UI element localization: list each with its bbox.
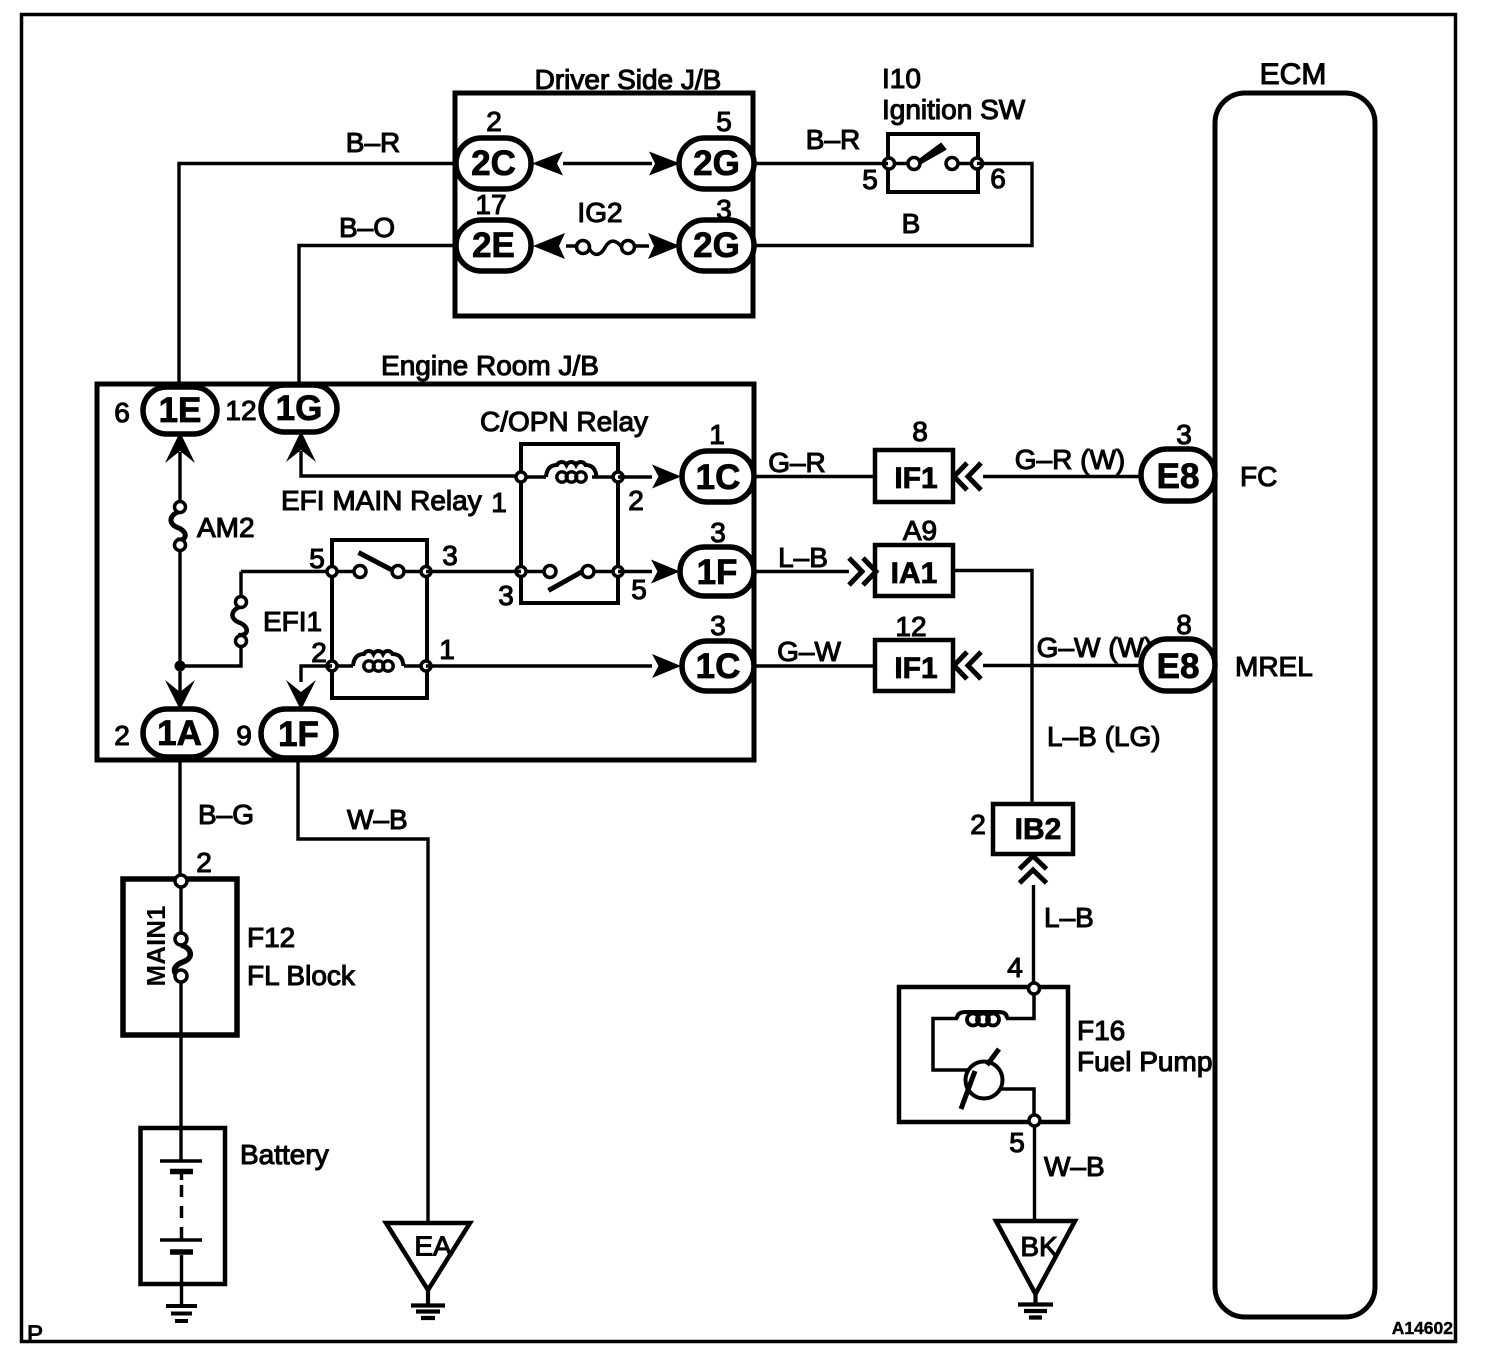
wire B-G from 1A to MAIN1 xyxy=(180,757,254,878)
svg-text:B–G: B–G xyxy=(198,799,254,830)
wire EFI MAIN pin2 to 1F xyxy=(301,666,332,682)
svg-text:BK: BK xyxy=(1020,1231,1058,1262)
harness chevrons into IF1 top xyxy=(954,463,981,490)
wire L-B to fuel pump xyxy=(1007,885,1094,988)
svg-text:8: 8 xyxy=(1176,609,1192,640)
harness arrows row 1 with wire xyxy=(532,152,680,176)
svg-text:Ignition SW: Ignition SW xyxy=(882,94,1026,125)
connector E8 pin 8 (MREL) xyxy=(1141,609,1215,691)
wire W-B to BK ground xyxy=(1009,1126,1104,1221)
connector 1C pin 1 xyxy=(682,419,754,502)
connector IA1 (A9) xyxy=(875,515,953,596)
svg-text:FL Block: FL Block xyxy=(247,960,356,991)
svg-text:W–B: W–B xyxy=(347,804,408,835)
svg-text:17: 17 xyxy=(475,189,506,220)
ground EA xyxy=(386,1223,470,1318)
wire EFI MAIN pin1 to 1C bottom xyxy=(426,664,652,667)
svg-text:5: 5 xyxy=(716,106,732,137)
svg-text:2G: 2G xyxy=(693,226,740,265)
svg-text:IF1: IF1 xyxy=(894,462,937,495)
harness arrow into 1F right xyxy=(651,560,680,584)
wire C/OPN pin2 to 1C xyxy=(618,475,652,478)
svg-text:5: 5 xyxy=(631,574,647,605)
svg-text:E8: E8 xyxy=(1157,647,1200,686)
connector 2G pin 5 xyxy=(679,106,754,189)
connector 1F pin 3 xyxy=(680,517,754,596)
svg-text:IG2: IG2 xyxy=(577,197,622,228)
connector 2G pin 3 xyxy=(679,194,754,271)
harness arrow down into 1F xyxy=(286,680,316,710)
svg-text:EFI1: EFI1 xyxy=(263,606,322,637)
connector 1C pin 3 xyxy=(682,610,754,691)
svg-text:5: 5 xyxy=(309,543,325,574)
svg-text:A14602: A14602 xyxy=(1392,1318,1454,1338)
svg-text:9: 9 xyxy=(236,720,252,751)
svg-text:G–R (W): G–R (W) xyxy=(1015,444,1125,475)
svg-text:AM2: AM2 xyxy=(197,512,255,543)
svg-text:2G: 2G xyxy=(693,144,740,183)
svg-text:3: 3 xyxy=(498,580,514,611)
connector 2C pin 2 xyxy=(456,106,531,189)
connector IF1 pin 12 xyxy=(875,611,953,691)
svg-text:2C: 2C xyxy=(471,144,516,183)
svg-text:W–B: W–B xyxy=(1044,1151,1105,1182)
wire EFI MAIN pin3 to C/OPN pin3 xyxy=(426,570,521,573)
wire B-R from 2G to switch xyxy=(754,124,888,164)
svg-text:2: 2 xyxy=(486,106,502,137)
svg-text:1G: 1G xyxy=(276,389,323,428)
fusible link MAIN1 (F12 FL Block) xyxy=(123,875,356,1161)
wire B from switch to 2G pin 3 xyxy=(754,164,1032,246)
harness arrow down into 1A xyxy=(165,680,195,710)
svg-text:G–W (W): G–W (W) xyxy=(1037,632,1154,663)
relay EFI MAIN xyxy=(281,485,482,698)
connector E8 pin 3 (FC) xyxy=(1141,419,1215,501)
harness arrow into 1C bottom xyxy=(652,654,681,678)
wire 1E down through AM2 to junction and 1A xyxy=(178,452,181,707)
svg-text:EA: EA xyxy=(414,1231,452,1262)
svg-text:5: 5 xyxy=(1009,1127,1025,1158)
svg-text:I10: I10 xyxy=(882,63,921,94)
svg-text:2: 2 xyxy=(114,720,130,751)
svg-text:2: 2 xyxy=(628,485,644,516)
svg-text:L–B: L–B xyxy=(778,542,828,573)
connector 1A pin 2 xyxy=(114,709,216,757)
svg-text:F12: F12 xyxy=(247,922,295,953)
wire C/OPN pin5 to 1F xyxy=(618,570,652,573)
svg-text:3: 3 xyxy=(442,540,458,571)
svg-text:3: 3 xyxy=(716,194,732,225)
svg-text:2: 2 xyxy=(970,809,986,840)
svg-text:MAIN1: MAIN1 xyxy=(141,906,171,987)
svg-text:3: 3 xyxy=(1176,419,1192,450)
svg-text:1C: 1C xyxy=(696,458,741,497)
svg-text:F16: F16 xyxy=(1077,1015,1125,1046)
svg-text:A9: A9 xyxy=(903,515,937,546)
svg-text:ECM: ECM xyxy=(1260,58,1327,91)
svg-text:1: 1 xyxy=(709,419,725,450)
wire B-O from 2E left to 1G xyxy=(299,212,457,385)
svg-text:G–R: G–R xyxy=(768,447,826,478)
svg-text:12: 12 xyxy=(895,611,926,642)
ground below battery xyxy=(166,1306,197,1321)
svg-text:1F: 1F xyxy=(278,715,319,754)
svg-text:B–R: B–R xyxy=(806,124,860,155)
svg-text:L–B: L–B xyxy=(1044,902,1094,933)
fuel pump F16 xyxy=(899,983,1212,1126)
connector 1E pin 6 xyxy=(114,387,217,434)
svg-text:6: 6 xyxy=(114,397,130,428)
svg-text:EFI MAIN Relay: EFI MAIN Relay xyxy=(281,485,482,516)
svg-text:IA1: IA1 xyxy=(891,557,938,590)
svg-text:L–B (LG): L–B (LG) xyxy=(1047,721,1161,752)
svg-text:Driver Side J/B: Driver Side J/B xyxy=(535,64,722,95)
harness chevrons into IF1 bottom xyxy=(954,652,981,679)
svg-text:P: P xyxy=(27,1321,43,1348)
svg-text:4: 4 xyxy=(1007,952,1023,983)
connector IB2 pin 2 xyxy=(970,804,1073,854)
svg-text:2: 2 xyxy=(196,847,212,878)
harness arrow up into 1G xyxy=(286,431,316,462)
fuse AM2 xyxy=(171,502,255,551)
ground BK xyxy=(996,1221,1075,1318)
svg-text:B–O: B–O xyxy=(339,212,395,243)
harness chevrons up into IB2 xyxy=(1020,856,1047,883)
connector 2E pin 17 xyxy=(456,189,531,271)
svg-text:2E: 2E xyxy=(472,226,515,265)
connector 1F pin 9 xyxy=(236,709,336,758)
wire G-W (W) from E8 xyxy=(983,632,1153,666)
battery xyxy=(141,1128,329,1306)
wire 1G down to C/OPN coil row xyxy=(301,451,521,476)
svg-text:IB2: IB2 xyxy=(1015,813,1062,846)
svg-text:12: 12 xyxy=(225,395,256,426)
svg-text:E8: E8 xyxy=(1157,457,1200,496)
svg-text:B–R: B–R xyxy=(346,127,400,158)
relay C/OPN xyxy=(480,406,648,611)
connector IF1 pin 8 xyxy=(875,416,953,502)
svg-text:6: 6 xyxy=(990,163,1006,194)
svg-text:1E: 1E xyxy=(159,391,202,430)
svg-text:FC: FC xyxy=(1240,461,1277,492)
wire from IA1 down to IB2 xyxy=(953,571,1161,805)
junction block: Driver Side J/B xyxy=(455,64,753,316)
svg-text:Fuel Pump: Fuel Pump xyxy=(1077,1046,1212,1077)
wire G-W to IF1 bottom xyxy=(754,636,875,667)
junction node xyxy=(175,661,186,672)
svg-text:3: 3 xyxy=(710,610,726,641)
wire G-R to IF1 xyxy=(754,447,875,478)
harness chevrons into IA1 left xyxy=(849,558,876,585)
connector 1G pin 12 xyxy=(225,385,337,432)
wire G-R (W) from E8 xyxy=(983,444,1141,477)
junction block: Engine Room J/B xyxy=(97,350,754,760)
svg-text:1: 1 xyxy=(439,634,455,665)
svg-text:1F: 1F xyxy=(697,553,738,592)
svg-text:C/OPN Relay: C/OPN Relay xyxy=(480,406,648,437)
wire W-B from 1F to EA ground xyxy=(298,758,428,1223)
svg-text:G–W: G–W xyxy=(777,636,841,667)
svg-text:2: 2 xyxy=(311,637,327,668)
svg-text:Engine Room J/B: Engine Room J/B xyxy=(381,350,599,381)
svg-text:IF1: IF1 xyxy=(894,652,937,685)
ignition switch I10 xyxy=(862,63,1026,195)
fuse IG2 with harness arrows row 2 xyxy=(533,197,680,259)
harness arrow up into 1E xyxy=(165,432,195,463)
svg-text:B: B xyxy=(902,208,921,239)
svg-text:8: 8 xyxy=(912,416,928,447)
svg-text:MREL: MREL xyxy=(1235,651,1313,682)
ECM block xyxy=(1215,58,1375,1317)
svg-text:1: 1 xyxy=(491,487,507,518)
svg-text:5: 5 xyxy=(862,164,878,195)
svg-text:3: 3 xyxy=(710,517,726,548)
wire B-R from 2C left to 1E xyxy=(179,127,457,387)
svg-text:1C: 1C xyxy=(696,647,741,686)
wire L-B to IA1 xyxy=(754,542,849,573)
harness arrow into 1C top xyxy=(652,465,681,489)
fuse EFI1 branch xyxy=(180,572,332,667)
svg-text:1A: 1A xyxy=(157,714,202,753)
svg-text:Battery: Battery xyxy=(240,1139,329,1170)
